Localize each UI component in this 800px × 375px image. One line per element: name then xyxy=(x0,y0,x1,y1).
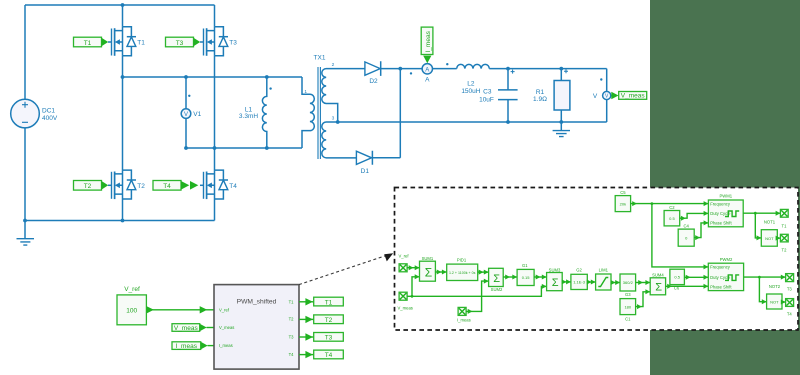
svg-text:PWM_shifted: PWM_shifted xyxy=(237,299,277,306)
diode D2 xyxy=(365,62,380,75)
transformer core xyxy=(318,67,320,159)
transformer TX1 secondary upper xyxy=(322,69,365,122)
from tag T1 xyxy=(74,37,109,47)
svg-text:1.9Ω: 1.9Ω xyxy=(533,96,547,103)
wire T2 drain xyxy=(122,77,124,170)
wire G1 to SUM3 xyxy=(534,276,547,278)
svg-text:100: 100 xyxy=(126,307,137,314)
svg-text:SUM3: SUM3 xyxy=(549,267,561,272)
svg-text:V_meas: V_meas xyxy=(174,325,199,332)
wire out T2 xyxy=(299,318,314,320)
diode D1 xyxy=(356,151,371,164)
from tag T2 xyxy=(74,181,109,191)
resistor R1 xyxy=(560,69,562,122)
constant C4 xyxy=(678,223,694,246)
svg-text:C1: C1 xyxy=(625,316,631,321)
svg-text:3.3mH: 3.3mH xyxy=(239,113,258,120)
wire G2 to LIM1 xyxy=(587,281,595,283)
svg-text:Frequency: Frequency xyxy=(710,265,731,270)
polarity plus R1 xyxy=(564,69,568,73)
constant C6 xyxy=(670,269,685,290)
polarity plus C3 xyxy=(511,70,515,74)
wire out T1 xyxy=(299,301,314,303)
ammeter A xyxy=(422,64,432,74)
svg-text:T1: T1 xyxy=(782,223,788,228)
summer SUM3 xyxy=(547,267,563,290)
node left leg midpoint xyxy=(121,75,125,79)
inport V_ref xyxy=(399,254,410,272)
wire I_meas to SUM2 xyxy=(466,281,489,311)
wire SUM1 to PID1 xyxy=(435,271,446,273)
gain G3 xyxy=(620,274,636,297)
svg-text:I_meas: I_meas xyxy=(425,30,432,52)
svg-text:Σ: Σ xyxy=(493,273,500,285)
polarity dot Vm xyxy=(600,78,602,80)
svg-text:I_meas: I_meas xyxy=(219,343,233,348)
polarity dot V1 xyxy=(188,95,190,97)
wire top rail xyxy=(25,4,215,6)
wire PWM2 to NOT2 xyxy=(759,277,766,302)
node center tap xyxy=(336,120,340,124)
svg-text:T4: T4 xyxy=(163,183,171,190)
polarity dot ammeter xyxy=(410,72,412,74)
svg-text:SUM1: SUM1 xyxy=(422,256,434,261)
svg-text:1.1E-3: 1.1E-3 xyxy=(573,280,586,285)
transistor T2 xyxy=(108,170,136,199)
from tag T4 xyxy=(153,181,198,191)
constant block V_ref xyxy=(117,286,146,325)
wire D1 riser xyxy=(399,69,401,158)
svg-text:Frequency: Frequency xyxy=(710,201,731,206)
voltmeter V1 xyxy=(181,109,191,119)
outport T3 xyxy=(786,274,794,292)
svg-text:V1: V1 xyxy=(193,111,201,118)
wire PWM2 to T3 xyxy=(744,276,786,278)
svg-text:T4: T4 xyxy=(325,352,333,359)
wire SUM3 to G2 xyxy=(562,281,571,283)
svg-text:V_meas: V_meas xyxy=(621,93,646,100)
wire C5 to PWM1 xyxy=(631,203,709,205)
svg-text:400V: 400V xyxy=(42,115,58,122)
wire center tap rail xyxy=(338,121,607,123)
transformer TX1 secondary lower xyxy=(322,122,357,158)
summer SUM1 xyxy=(420,256,436,281)
outport T1 xyxy=(780,209,788,228)
pwm generator PWM2 xyxy=(708,257,743,291)
wire bottom bus xyxy=(25,220,215,222)
svg-text:T3: T3 xyxy=(787,286,793,291)
svg-text:V_meas: V_meas xyxy=(219,325,234,330)
svg-text:D1: D1 xyxy=(361,168,370,175)
transistor T4 xyxy=(200,170,228,199)
constant C2 xyxy=(664,205,680,226)
svg-text:C5: C5 xyxy=(620,190,626,195)
goto tag T3 out xyxy=(314,333,344,342)
wire V1 branch xyxy=(185,77,187,148)
wire T3 drain xyxy=(214,5,216,27)
svg-text:SUM4: SUM4 xyxy=(652,273,664,278)
inductor L1 xyxy=(262,77,266,148)
svg-text:150uH: 150uH xyxy=(461,88,480,95)
wire V_ref to subsystem xyxy=(146,309,214,311)
wire V_ref to SUM1 xyxy=(407,267,419,269)
wire C5 to PWM2 frequency xyxy=(652,204,708,267)
summer SUM4 xyxy=(650,273,665,295)
wire bridge mid rail xyxy=(123,76,303,78)
voltmeter Vm xyxy=(603,91,611,99)
wire output top rail xyxy=(489,68,606,70)
node C3 top xyxy=(506,67,510,71)
node V_meas branch xyxy=(411,295,414,298)
svg-text:360/2: 360/2 xyxy=(623,280,634,285)
gain G2 xyxy=(571,267,587,289)
node C5 branch xyxy=(651,202,654,205)
from tag V_meas xyxy=(172,324,214,332)
wire PID1 to SUM2 xyxy=(478,271,489,273)
svg-text:C6: C6 xyxy=(674,285,680,290)
node right leg midpoint xyxy=(213,146,217,150)
wire LIM1 to G3 xyxy=(611,282,620,284)
dashed subsystem view box xyxy=(395,188,799,331)
node V1 bottom xyxy=(184,146,188,150)
wire T4 source xyxy=(214,199,216,221)
svg-text:2: 2 xyxy=(332,62,335,68)
svg-text:T2: T2 xyxy=(289,317,295,322)
svg-text:TX1: TX1 xyxy=(314,55,326,62)
svg-text:D2: D2 xyxy=(369,78,378,85)
node bottom bus T2 xyxy=(121,219,125,223)
logic NOT2 xyxy=(767,284,782,309)
svg-text:10uF: 10uF xyxy=(479,96,494,103)
wire SUM2 to G1 xyxy=(503,276,517,278)
ground R1 xyxy=(560,122,562,130)
node V1 top xyxy=(184,75,188,79)
wire V_meas feedback xyxy=(407,286,546,296)
wire C2 to PWM1 duty xyxy=(680,213,709,218)
svg-text:T1: T1 xyxy=(84,40,92,47)
svg-text:NOT: NOT xyxy=(770,300,779,305)
svg-text:Phase Shift: Phase Shift xyxy=(710,221,732,226)
inport V_meas xyxy=(398,292,413,310)
svg-text:R1: R1 xyxy=(536,89,545,96)
wire ammeter to L2 xyxy=(433,68,457,70)
inductor L2 xyxy=(457,64,490,68)
svg-text:T4: T4 xyxy=(289,352,295,357)
svg-text:180: 180 xyxy=(624,305,631,310)
transformer TX1 primary xyxy=(302,77,314,148)
inport I_meas xyxy=(457,307,471,322)
goto tag T1 out xyxy=(314,297,344,306)
node top rail T1 xyxy=(121,3,125,7)
svg-text:T2: T2 xyxy=(782,247,788,252)
svg-text:T1: T1 xyxy=(325,299,333,306)
wire PWM1 to T1 xyxy=(743,212,780,214)
svg-text:1.2 + 1100k + 0s: 1.2 + 1100k + 0s xyxy=(449,271,476,275)
node R1 top xyxy=(559,67,563,71)
svg-text:PWM2: PWM2 xyxy=(720,257,733,262)
svg-text:SUM2: SUM2 xyxy=(491,287,503,292)
pwm generator PWM1 xyxy=(708,194,743,227)
controller PID1 xyxy=(447,258,478,281)
ground xyxy=(24,221,26,239)
wire T2 source xyxy=(122,199,124,221)
wire T3 source xyxy=(214,56,216,148)
svg-text:V_ref: V_ref xyxy=(399,254,410,259)
wire C6 to PWM2 xyxy=(684,276,708,278)
subsystem PWM_shifted xyxy=(214,285,299,370)
wire PWM1 to NOT1 xyxy=(755,213,761,238)
svg-text:NOT1: NOT1 xyxy=(764,220,776,225)
svg-text:PID1: PID1 xyxy=(457,258,467,263)
wire out T4 xyxy=(299,354,314,356)
node C3 bottom xyxy=(506,120,510,124)
svg-text:Σ: Σ xyxy=(552,277,559,289)
svg-text:C4: C4 xyxy=(684,223,690,228)
wire DC1 negative lead xyxy=(24,128,26,221)
dc source DC1 xyxy=(11,99,40,128)
wire T1 drain xyxy=(122,5,124,27)
transistor T3 xyxy=(200,27,228,56)
svg-text:T3: T3 xyxy=(229,40,237,47)
svg-text:3: 3 xyxy=(332,116,335,122)
svg-text:C3: C3 xyxy=(483,88,492,95)
node D1-D2 join xyxy=(398,67,402,71)
svg-text:G2: G2 xyxy=(576,267,582,272)
pointer dashed arrow xyxy=(299,255,388,285)
wire T1 source xyxy=(122,56,124,77)
from tag I_meas xyxy=(172,342,214,350)
wire C1 to SUM4 xyxy=(636,292,651,307)
svg-text:T2: T2 xyxy=(137,183,145,190)
svg-text:T3: T3 xyxy=(289,334,295,339)
svg-text:T1: T1 xyxy=(137,40,145,47)
svg-text:20k: 20k xyxy=(620,202,626,207)
outport T4 xyxy=(786,299,794,317)
svg-text:V_meas: V_meas xyxy=(398,306,413,311)
svg-text:Σ: Σ xyxy=(425,265,432,279)
constant C5 xyxy=(615,190,630,212)
constant C1 xyxy=(620,299,636,322)
goto tag V_meas xyxy=(611,92,646,100)
wire T4 drain xyxy=(214,148,216,170)
from tag T3 xyxy=(166,37,201,47)
svg-text:0.15: 0.15 xyxy=(522,275,531,280)
goto tag T4 out xyxy=(314,350,344,359)
outport T2 xyxy=(780,234,788,252)
svg-text:T3: T3 xyxy=(176,40,184,47)
svg-text:T3: T3 xyxy=(325,335,333,342)
svg-text:Σ: Σ xyxy=(655,282,662,294)
node L1 top xyxy=(265,75,269,79)
svg-text:T4: T4 xyxy=(787,311,793,316)
svg-text:T2: T2 xyxy=(325,317,333,324)
svg-text:NOT: NOT xyxy=(765,236,774,241)
saturation LIM1 xyxy=(596,267,611,290)
wire NOT2 to T4 xyxy=(782,301,786,303)
node bottom-left xyxy=(23,219,27,223)
svg-text:T1: T1 xyxy=(289,299,295,304)
svg-text:C2: C2 xyxy=(669,205,675,210)
svg-text:Phase Shift: Phase Shift xyxy=(710,284,732,289)
node L1 bottom xyxy=(265,146,269,150)
polarity dot L1 xyxy=(269,87,271,89)
wire DC1 positive lead xyxy=(24,5,26,99)
svg-text:I_meas: I_meas xyxy=(176,343,198,350)
svg-text:T2: T2 xyxy=(84,183,92,190)
svg-text:A: A xyxy=(425,67,429,73)
wire out T3 xyxy=(299,336,314,338)
svg-text:V_ref: V_ref xyxy=(124,286,140,293)
node PWM1 out xyxy=(754,212,757,215)
logic NOT1 xyxy=(761,220,777,247)
svg-text:V: V xyxy=(593,93,598,100)
svg-text:0.5: 0.5 xyxy=(674,275,680,280)
svg-text:PWM1: PWM1 xyxy=(720,194,733,199)
wire C4 to PWM1 phase xyxy=(694,223,708,238)
wire NOT1 to T2 xyxy=(777,237,780,239)
dark green side panel xyxy=(650,0,800,375)
node PWM2 out xyxy=(758,276,761,279)
wire SUM4 to PWM2 xyxy=(666,285,709,287)
svg-text:0.5: 0.5 xyxy=(669,216,675,221)
svg-text:I_meas: I_meas xyxy=(457,318,471,323)
capacitor C3 xyxy=(498,69,518,122)
wire output right branch xyxy=(606,69,608,122)
wire lower mid rail xyxy=(186,147,302,149)
wire V_meas to SUM1 xyxy=(412,277,420,297)
goto tag I_meas xyxy=(421,27,433,63)
svg-text:T4: T4 xyxy=(229,183,237,190)
svg-text:V_ref: V_ref xyxy=(219,307,230,312)
node R1 bottom xyxy=(559,120,563,124)
summer SUM2 xyxy=(489,268,504,292)
svg-text:NOT2: NOT2 xyxy=(769,284,781,289)
wire G3 to SUM4 xyxy=(636,282,651,284)
svg-text:L2: L2 xyxy=(467,81,475,88)
svg-text:A: A xyxy=(425,76,430,83)
svg-text:G1: G1 xyxy=(522,263,528,268)
svg-text:1: 1 xyxy=(304,89,307,95)
polarity dot L2 xyxy=(446,63,448,65)
svg-text:DC1: DC1 xyxy=(42,108,55,115)
transistor T1 xyxy=(108,27,136,56)
goto tag T2 out xyxy=(314,315,344,324)
svg-text:LIM1: LIM1 xyxy=(599,267,609,272)
svg-text:G3: G3 xyxy=(625,292,631,297)
gain G1 xyxy=(517,263,534,286)
svg-text:V: V xyxy=(184,112,188,118)
